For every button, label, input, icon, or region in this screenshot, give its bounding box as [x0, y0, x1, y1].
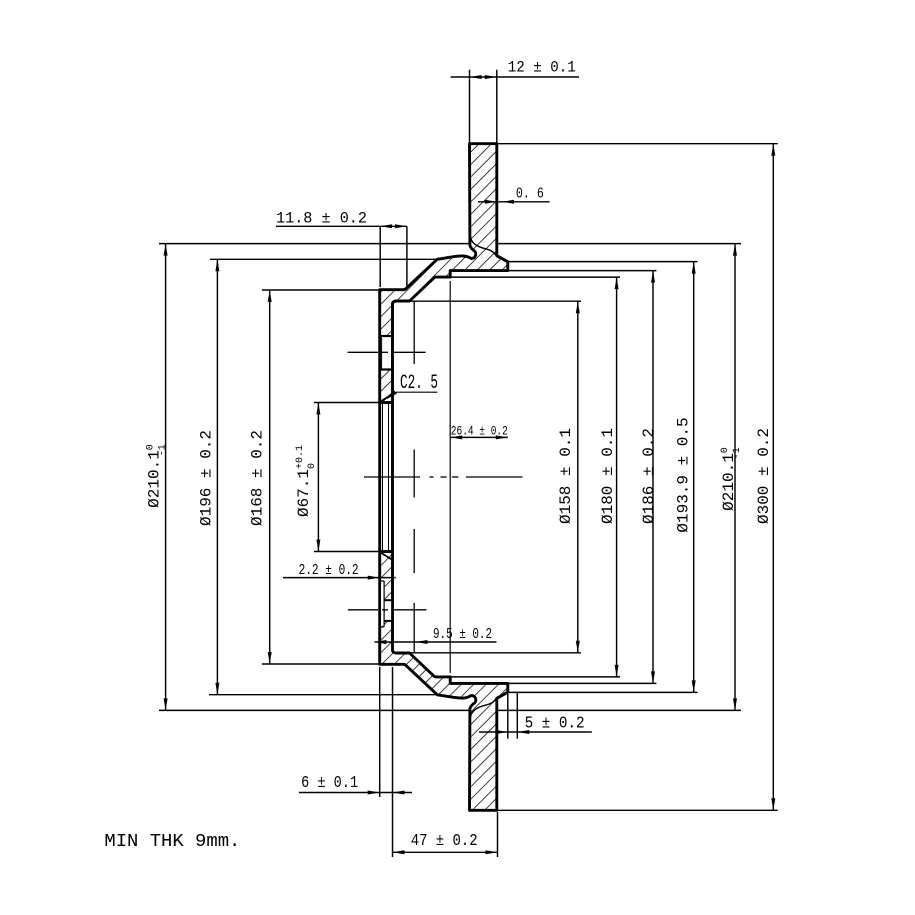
main axis centerline	[364, 476, 420, 478]
dimension 9.5±0.2 (wall thickness)	[375, 641, 497, 643]
auxiliary vertical line x=414	[413, 301, 415, 364]
interior edge / extension line Ø180 top	[450, 276, 620, 278]
svg-text:Ø300 ± 0.2: Ø300 ± 0.2	[755, 428, 773, 524]
dimension 0.6	[478, 201, 550, 203]
interior edge / extension line Ø180 bottom	[450, 676, 620, 678]
dimension Ø196	[216, 259, 218, 694]
svg-text:Ø196 ± 0.2: Ø196 ± 0.2	[197, 430, 215, 526]
bolt hole, bottom flange	[385, 601, 391, 620]
dimension 6±0.1 (flange thickness)	[379, 667, 381, 797]
friction surface relief groove edge, top	[470, 237, 496, 255]
svg-text:47 ± 0.2: 47 ± 0.2	[411, 832, 478, 851]
dimension 11.8±0.2	[379, 226, 381, 287]
svg-text:5 ± 0.2: 5 ± 0.2	[525, 715, 585, 734]
bolt hole, top flange	[381, 337, 391, 368]
friction surface relief groove edge, bottom	[470, 699, 496, 717]
hatched section: friction band + hat wall + flange, bottom half	[380, 552, 508, 811]
dimension Ø210.1 (left)	[165, 244, 167, 711]
dimension Ø180	[616, 277, 618, 677]
dimension Ø300	[772, 144, 774, 811]
extension lines, diameters	[159, 243, 470, 245]
svg-text:12 ± 0.1: 12 ± 0.1	[508, 59, 576, 77]
svg-text:11.8 ± 0.2: 11.8 ± 0.2	[276, 210, 367, 228]
svg-text:2.2 ± 0.2: 2.2 ± 0.2	[299, 562, 359, 579]
svg-text:Ø180 ± 0.1: Ø180 ± 0.1	[599, 428, 617, 524]
bolt hole centerline, bottom	[348, 609, 378, 611]
dimension Ø210.1 (right)	[734, 244, 736, 711]
svg-text:C2. 5: C2. 5	[400, 372, 438, 395]
bolt hole centerline, top	[348, 351, 378, 353]
svg-text:Ø193.9 ± 0.5: Ø193.9 ± 0.5	[675, 417, 693, 532]
svg-text:Ø168 ± 0.2: Ø168 ± 0.2	[248, 430, 266, 526]
dimension Ø193.9	[693, 262, 695, 693]
dimension Ø186	[652, 271, 654, 684]
svg-text:MIN THK 9mm.: MIN THK 9mm.	[104, 832, 240, 852]
dimension 47±0.2 (overall depth)	[497, 812, 499, 857]
svg-text:0. 6: 0. 6	[516, 186, 544, 203]
dimension Ø158	[577, 301, 579, 653]
dimension Ø67.1	[317, 403, 319, 552]
dimension Ø168	[269, 290, 271, 664]
svg-text:26.4 ± 0.2: 26.4 ± 0.2	[451, 424, 508, 439]
dimension 26.4±0.2 (hat depth)	[450, 436, 508, 438]
svg-text:9.5 ± 0.2: 9.5 ± 0.2	[433, 626, 492, 643]
dimension 2.2±0.2 (recess depth)	[283, 577, 396, 579]
svg-text:Ø186 ± 0.2: Ø186 ± 0.2	[640, 428, 658, 524]
extension line of interior step face x=450.2	[449, 281, 451, 673]
hatched section: friction band + hat wall + flange, top half	[380, 144, 508, 403]
recess slot, bottom flange	[381, 582, 384, 626]
svg-text:6 ± 0.1: 6 ± 0.1	[301, 774, 358, 793]
dimension 5±0.2	[507, 694, 509, 739]
chamfer note C2.5 with leader	[388, 392, 438, 398]
bore chamfer C2.5, bottom	[380, 552, 392, 559]
dimension 12±0.1 (disc thickness)	[469, 70, 471, 143]
bore chamfer C2.5, top	[380, 394, 392, 401]
hub pilot bore Ø67.1 silhouette lines	[378, 403, 381, 552]
svg-text:Ø158 ± 0.1: Ø158 ± 0.1	[557, 428, 575, 524]
